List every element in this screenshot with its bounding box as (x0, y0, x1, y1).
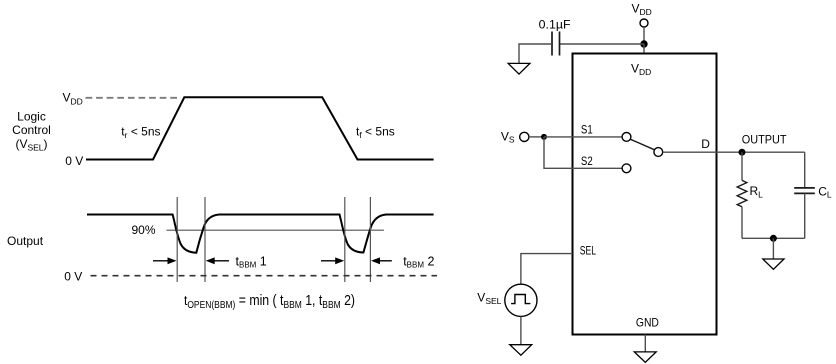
svg-text:0 V: 0 V (65, 154, 83, 168)
svg-text:OUTPUT: OUTPUT (742, 133, 787, 147)
ground (bypass capacitor) (508, 63, 530, 74)
svg-text:S1: S1 (581, 125, 593, 137)
wire ground to bypass capacitor (519, 44, 552, 63)
svg-text:Logic: Logic (17, 109, 46, 123)
wire resistor RL to ground rail (741, 207, 743, 239)
ground (IC GND pin) (634, 352, 656, 363)
svg-text:S2: S2 (581, 156, 593, 168)
wire VSEL source to ground (520, 316, 522, 344)
terminal VS open circle (520, 132, 529, 141)
wire junction down and to S2 pin (544, 137, 622, 168)
op-amp U1 analog switch IC box (573, 54, 717, 335)
svg-text:tBBM 2: tBBM 2 (403, 254, 434, 269)
switch S2 contact circle (622, 164, 631, 173)
wire output waveform with two break-before-make dips (87, 215, 434, 253)
svg-text:0.1µF: 0.1µF (539, 17, 571, 31)
svg-text:VS: VS (501, 129, 515, 144)
junction load ground dot (770, 235, 777, 242)
arrow pointing left into line 2 (206, 257, 229, 264)
svg-text:VDD: VDD (63, 91, 83, 107)
node label Logic Control (VSEL) (12, 109, 51, 152)
wire capacitor CL to ground rail (804, 193, 806, 238)
wire VS to junction (529, 136, 544, 138)
svg-text:SEL: SEL (580, 245, 597, 257)
wire logic control waveform trapezoid (86, 97, 434, 159)
arrow pointing left into line 4 (371, 257, 392, 264)
wire measurement vertical line 1 (176, 197, 178, 282)
svg-text:tf < 5ns: tf < 5ns (356, 125, 395, 140)
resistor RL (737, 180, 747, 206)
wire junction to S1 pin (544, 136, 622, 138)
wire VDD terminal to junction (643, 27, 645, 44)
wire output node to resistor RL (741, 152, 743, 180)
transistor Q1 VSEL pulse source circle (505, 284, 537, 316)
wire junction to IC VDD pin (643, 44, 645, 54)
svg-text:GND: GND (636, 315, 659, 329)
terminal VDD open circle (640, 19, 648, 27)
wire D pin to output node (663, 151, 805, 153)
arrow pointing right into line 1 (153, 257, 177, 264)
wire measurement vertical line 3 (344, 197, 346, 282)
svg-text:tr < 5ns: tr < 5ns (121, 124, 160, 139)
wire output node to capacitor CL (804, 152, 806, 187)
ground (VSEL source) (510, 345, 532, 356)
svg-text:D: D (701, 137, 710, 151)
junction VS node dot (541, 134, 547, 140)
switch common pole circle (654, 148, 663, 157)
wire measurement vertical line 2 (204, 197, 206, 282)
junction output node dot (739, 149, 746, 156)
wire load ground rail (742, 237, 805, 239)
switch lever arm (630, 139, 654, 150)
wire VDD reference dashed line (86, 97, 182, 99)
capacitor CL plates (794, 188, 815, 194)
wire pulse symbol inside VSEL source (511, 295, 530, 304)
svg-text:0 V: 0 V (64, 270, 82, 284)
arrow pointing right into line 3 (321, 257, 344, 264)
junction VDD node dot (640, 40, 647, 47)
wire bypass capacitor to VDD junction (560, 43, 645, 45)
wire GND pin stem (644, 335, 646, 352)
wire load ground stem (772, 238, 774, 259)
svg-text:CL: CL (818, 184, 832, 199)
svg-text:Control: Control (12, 123, 51, 137)
wire measurement vertical line 4 (369, 197, 371, 282)
svg-text:RL: RL (750, 184, 764, 199)
svg-text:VSEL: VSEL (477, 291, 501, 306)
svg-text:(VSEL): (VSEL) (15, 137, 47, 152)
capacitor 0.1uF plates (552, 32, 560, 56)
wire SEL pin to VSEL source (521, 254, 573, 285)
wire 90% reference line (167, 229, 384, 231)
svg-text:tOPEN(BBM) = min ( tBBM 1, tBB: tOPEN(BBM) = min ( tBBM 1, tBBM 2) (184, 293, 355, 311)
svg-text:Output: Output (7, 234, 44, 248)
svg-text:90%: 90% (132, 223, 156, 237)
ground (load) (763, 259, 784, 269)
svg-text:VDD: VDD (631, 61, 651, 77)
switch S1 contact circle (622, 133, 631, 142)
wire 0V dashed line (output waveform) (91, 275, 438, 277)
svg-text:VDD: VDD (632, 1, 652, 17)
svg-text:tBBM 1: tBBM 1 (236, 254, 267, 269)
